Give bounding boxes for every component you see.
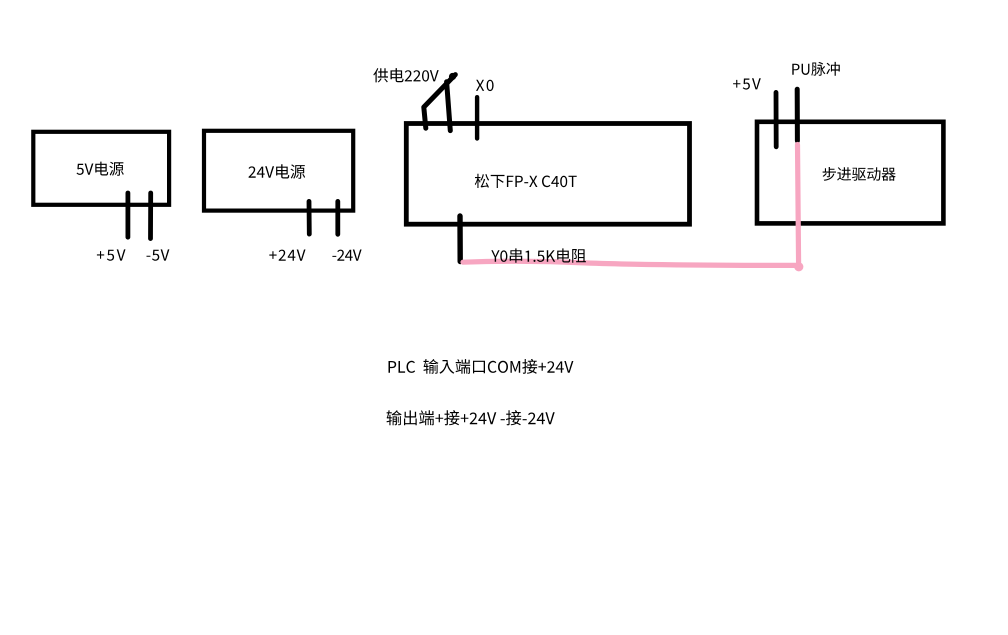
label 24V电源 bbox=[249, 164, 306, 178]
terminal tick -5V (5V supply) bbox=[148, 193, 153, 239]
label -24V bbox=[332, 250, 361, 261]
label 松下FP-X C40T bbox=[475, 174, 577, 188]
label X0 bbox=[476, 80, 494, 91]
box stepper driver 步进驱动器 bbox=[757, 122, 943, 224]
box 24V power supply bbox=[204, 131, 353, 211]
note PLC 输入端口COM接+24V bbox=[389, 359, 574, 374]
label Y0串1.5K电阻 bbox=[491, 248, 586, 262]
note 输出端+接+24V -接-24V bbox=[387, 410, 555, 425]
tick +5V (driver) bbox=[774, 92, 779, 146]
terminal tick +5V (5V supply) bbox=[126, 193, 131, 237]
label PU脉冲 bbox=[792, 62, 840, 76]
terminal tick -24V (24V supply) bbox=[335, 201, 340, 234]
label -5V bbox=[147, 249, 170, 260]
box PLC 松下FP-X C40T bbox=[406, 124, 689, 225]
wire Y0 to PU (pink signal wire) bbox=[463, 145, 799, 266]
wire corner blob bbox=[794, 262, 803, 271]
label +5V (driver) bbox=[733, 78, 761, 89]
label 5V电源 bbox=[77, 162, 124, 176]
input tick X0 bbox=[475, 97, 479, 138]
label 供电220V bbox=[373, 68, 438, 82]
tick PU (driver) bbox=[795, 89, 800, 141]
label 步进驱动器 bbox=[823, 167, 896, 181]
label +24V bbox=[269, 250, 305, 261]
output tick Y0 bbox=[457, 216, 463, 262]
label +5V bbox=[97, 249, 126, 260]
box 5V power supply bbox=[33, 132, 169, 205]
terminal tick +24V (24V supply) bbox=[307, 201, 312, 234]
AC supply stroke (bent, 供电220V) bbox=[424, 75, 456, 129]
AC supply stroke blob at top bbox=[449, 73, 456, 80]
AC supply stroke 2 bbox=[447, 82, 451, 131]
